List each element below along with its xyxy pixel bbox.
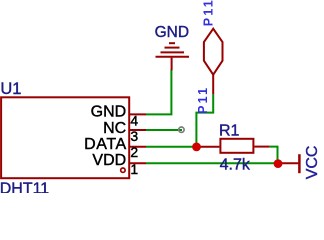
svg-text:1: 1 — [130, 161, 138, 177]
svg-text:DATA: DATA — [84, 136, 127, 153]
svg-text:DHT11: DHT11 — [0, 180, 49, 193]
svg-text:GND: GND — [155, 24, 189, 41]
svg-text:GND: GND — [91, 104, 127, 121]
svg-text:U1: U1 — [0, 80, 21, 98]
svg-text:2: 2 — [130, 144, 138, 160]
svg-text:P11: P11 — [196, 86, 210, 114]
svg-text:NC: NC — [103, 120, 126, 137]
svg-text:R1: R1 — [219, 123, 240, 140]
svg-text:P11: P11 — [201, 0, 215, 26]
svg-text:4: 4 — [130, 112, 138, 128]
svg-text:VCC: VCC — [304, 146, 321, 180]
svg-text:3: 3 — [130, 128, 138, 144]
svg-text:4.7k: 4.7k — [220, 157, 251, 174]
svg-text:VDD: VDD — [92, 152, 126, 169]
